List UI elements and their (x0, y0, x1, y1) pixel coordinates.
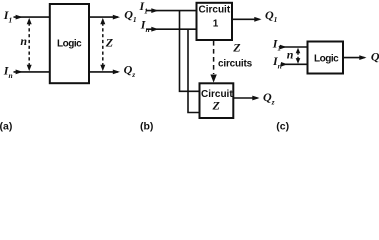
svg-text:1: 1 (213, 18, 219, 29)
svg-text:n: n (287, 48, 294, 62)
wire input In (c) (281, 62, 308, 67)
wire input I1 (a) (14, 15, 50, 20)
node Q1 (a) (124, 7, 136, 23)
wire output Q1 (a) (89, 15, 120, 20)
node Qz (b) (263, 90, 275, 106)
node In (b) (140, 17, 150, 33)
label n (a) (20, 34, 27, 48)
circuit block 1 (b) (197, 3, 233, 40)
node In (c) (272, 54, 282, 70)
svg-text:n: n (20, 34, 27, 48)
bus-width arrow Z (a) (100, 18, 105, 71)
node I1 (b) (139, 0, 148, 16)
wire input I1 (b) (146, 8, 197, 13)
wire output Qz (b) (233, 96, 260, 101)
node Qz (a) (124, 63, 136, 79)
caption (c) (276, 121, 289, 133)
label Z circuits (b) (218, 41, 253, 70)
bus-width arrow n (c) (296, 48, 301, 64)
wire output Q (c) (343, 55, 367, 60)
circuit block Z (b) (200, 83, 234, 118)
wire tap I1 to circuit Z (b) (180, 11, 200, 92)
node Q1 (b) (265, 8, 277, 24)
label Z (a) (105, 36, 114, 50)
svg-text:Q: Q (371, 49, 379, 63)
label n (c) (287, 48, 294, 62)
logic block U1 (a) (50, 4, 89, 83)
svg-text:Z: Z (232, 41, 241, 55)
svg-text:circuits: circuits (218, 58, 253, 69)
wire output Q1 (b) (232, 17, 262, 22)
wire input I1 (c) (280, 45, 308, 50)
caption (a) (0, 121, 12, 133)
svg-text:Logic: Logic (57, 39, 82, 50)
wire tap In to circuit Z (b) (188, 29, 200, 112)
svg-text:Z: Z (105, 36, 114, 50)
node I1 (c) (272, 36, 281, 52)
svg-text:(a): (a) (0, 121, 12, 133)
svg-text:Circuit: Circuit (199, 5, 231, 16)
svg-text:Logic: Logic (314, 54, 339, 65)
svg-text:(b): (b) (140, 121, 153, 133)
caption (b) (140, 121, 153, 133)
ellipsis arrow Z circuits (b) (210, 41, 216, 83)
node In (a) (3, 64, 13, 80)
wire input In (b) (146, 27, 197, 32)
wire output Qz (a) (89, 70, 120, 75)
node I1 (a) (3, 8, 12, 24)
node Q (c) (371, 49, 379, 63)
bus-width arrow n (a) (27, 18, 32, 71)
wire input In (a) (14, 70, 50, 75)
svg-text:(c): (c) (276, 121, 289, 133)
logic block (c) (308, 42, 344, 74)
svg-text:Z: Z (212, 99, 221, 113)
